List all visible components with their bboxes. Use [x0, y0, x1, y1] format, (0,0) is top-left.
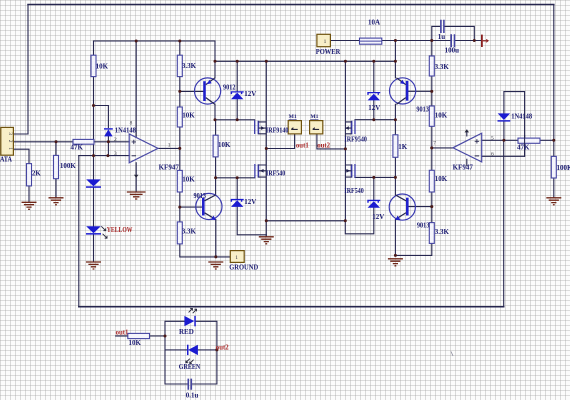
wire right source rail [344, 61, 346, 221]
fuse 10A F1 [360, 38, 382, 44]
resistor 10K R3 [177, 107, 182, 127]
diode 1N4148 D8 [498, 113, 510, 120]
svg-text:10K: 10K [182, 175, 195, 183]
ground under 100K R14 [546, 198, 561, 205]
ground under left drain rail [259, 237, 274, 244]
wire DATA pin2 to 47K [14, 141, 74, 143]
svg-text:POWER: POWER [316, 47, 341, 56]
wire cap 1u branch [432, 26, 475, 40]
svg-text:1: 1 [168, 142, 171, 148]
svg-text:DATA: DATA [0, 154, 12, 163]
resistor 10K R17 [128, 333, 150, 338]
svg-text:2: 2 [114, 137, 117, 143]
LED arrows D3 [101, 226, 107, 238]
wire zener D4 stubs [236, 61, 238, 120]
wire opamp1 output [158, 147, 180, 149]
wire Q1 base [180, 90, 204, 92]
wire x93.5 column [93, 41, 95, 262]
connector M1 b [310, 121, 323, 134]
wire left border [27, 5, 29, 135]
wire mid rail y61.3 [215, 60, 395, 62]
resistor 10K R11 [429, 106, 434, 126]
svg-text:100K: 100K [557, 164, 570, 172]
svg-text:100u: 100u [445, 47, 460, 55]
resistor 3.3K R5 [177, 222, 182, 244]
svg-text:KF947: KF947 [453, 163, 474, 171]
svg-text:3.3K: 3.3K [182, 62, 197, 70]
wire zener D5 stubs [237, 178, 266, 235]
svg-text:10A: 10A [368, 19, 380, 27]
svg-text:10K: 10K [129, 339, 142, 347]
diode D2 [86, 179, 101, 186]
svg-text:10K: 10K [218, 141, 231, 149]
svg-text:IRF540: IRF540 [266, 170, 286, 178]
svg-text:12V: 12V [244, 198, 256, 206]
resistor 3.3K R10 [429, 56, 434, 76]
wire upper rail2 [94, 40, 216, 42]
stray mark [451, 352, 453, 357]
svg-text:12V: 12V [372, 213, 384, 221]
wire x431.8 column [395, 41, 431, 256]
svg-text:1K: 1K [398, 143, 408, 151]
svg-text:out2: out2 [216, 345, 229, 352]
wire out1 from M1a [266, 134, 294, 149]
wire opamp2 pin5 [482, 139, 554, 141]
wire opamp minus input [79, 155, 129, 157]
resistor 100K R8 [54, 155, 59, 178]
ground op-amp U1 pin4 [127, 192, 146, 199]
zener 12V D7 [368, 94, 380, 101]
wire zener D7 stubs [373, 61, 375, 119]
svg-text:3: 3 [7, 132, 13, 135]
svg-text:out2: out2 [317, 143, 330, 150]
mosfet IRF540 M4 [345, 164, 355, 178]
resistor 1K R9 [393, 135, 398, 158]
wire gate upper left [215, 119, 255, 121]
wire diode D8 loop [504, 92, 525, 157]
wire 47K to opamp plus [94, 141, 129, 143]
wire fuse drop [394, 41, 396, 62]
svg-text:12V: 12V [368, 104, 380, 112]
svg-text:0.1u: 0.1u [186, 392, 199, 400]
wire POWER to fuse [330, 40, 359, 42]
svg-text:1u: 1u [438, 33, 446, 41]
wire Q3 base [409, 90, 432, 92]
power port red bar [482, 35, 488, 47]
ground under Q2 emitter [208, 262, 223, 269]
resistor 10K R6 [213, 135, 218, 157]
svg-text:out1: out1 [116, 330, 129, 337]
wire x179.8 column [180, 41, 216, 257]
svg-text:9013: 9013 [417, 222, 430, 230]
svg-text:3.3K: 3.3K [435, 63, 450, 71]
svg-text:10K: 10K [435, 175, 448, 183]
LED YELLOW D3 [86, 226, 101, 233]
wire right feedback rail [503, 140, 505, 306]
ground under 100K R8 [49, 198, 64, 205]
wire 2K to ground [28, 186, 30, 202]
svg-text:3.3K: 3.3K [435, 228, 450, 236]
wire out1 bottom stub [116, 335, 128, 337]
wire 100K R14 bottom [553, 178, 555, 198]
svg-text:10K: 10K [435, 111, 448, 119]
wire x215 column [215, 41, 230, 257]
svg-text:GREEN: GREEN [179, 363, 200, 371]
ground under 2K [22, 202, 37, 209]
svg-text:M1: M1 [289, 114, 297, 120]
connector M1 a [288, 121, 301, 134]
wire ground link left [266, 220, 345, 222]
svg-text:9012: 9012 [223, 84, 236, 92]
wire 100K R8 top [55, 142, 57, 156]
wire DATA pin1 to 2K [14, 149, 30, 163]
wire top rail [28, 4, 554, 6]
wire fuse to caps [382, 40, 481, 42]
LED RED D9 [184, 316, 194, 326]
svg-text:2K: 2K [32, 169, 42, 177]
wire right border [553, 5, 555, 157]
wire 100K R8 bottom [55, 179, 57, 198]
op-amp KF947 U2 [453, 130, 482, 167]
svg-text:GROUND: GROUND [229, 262, 258, 271]
mosfet IRF9540 M3 [345, 120, 355, 134]
wire out2 from M1b [317, 134, 346, 149]
svg-text:IRF9140: IRF9140 [266, 126, 289, 134]
svg-text:6: 6 [491, 151, 494, 157]
diode 1N4148 D1 [104, 129, 112, 136]
resistor 10K R4 [177, 170, 182, 192]
zener 12V D5 [231, 200, 243, 207]
wire left drain rail [265, 61, 267, 236]
zener 12V D6 [368, 201, 380, 208]
resistor 47K R15 [73, 139, 94, 144]
svg-text:12V: 12V [244, 90, 256, 98]
svg-text:KF947: KF947 [159, 164, 180, 172]
svg-text:2: 2 [7, 140, 13, 143]
connector POWER J2 [317, 34, 331, 46]
LED arrows D9 [189, 308, 197, 313]
transistor 9013 Q2 [196, 193, 222, 220]
svg-text:M1: M1 [310, 114, 318, 120]
svg-text:5: 5 [491, 136, 494, 142]
connector GROUND J3 [230, 251, 244, 263]
wire gate lower right [355, 176, 395, 178]
wire clamp jog [94, 106, 109, 128]
LED arrows D10 [186, 359, 194, 364]
transistor 9013 Q3 [390, 78, 416, 105]
resistor 10K R12 [429, 170, 434, 192]
svg-text:9013: 9013 [194, 192, 207, 200]
wire Q4 base [409, 206, 432, 208]
wire opamp1 pin8 drop [135, 41, 137, 137]
mosfet IRF540 M2 [255, 164, 266, 178]
connector DATA J1 [1, 127, 14, 155]
wire zener D6 stubs [345, 177, 374, 233]
resistor 3.3K R13 [429, 223, 434, 244]
svg-text:YELLOW: YELLOW [107, 227, 133, 234]
LED GREEN D10 [188, 345, 198, 355]
wire gate upper right [355, 119, 395, 121]
fuse mid line [360, 40, 382, 42]
wire opamp2 pin6 [482, 155, 525, 157]
svg-text:7: 7 [433, 140, 436, 146]
svg-text:47K: 47K [517, 144, 530, 152]
wire left feedback rail [78, 156, 80, 307]
op-amp KF947 U1 [129, 134, 158, 192]
svg-text:1N4148: 1N4148 [115, 127, 136, 135]
svg-text:9013: 9013 [416, 106, 429, 114]
svg-text:3: 3 [114, 151, 117, 157]
resistor 10K R1 [91, 55, 96, 76]
wire Q2 base [180, 206, 202, 208]
wire 10K R17 to led loop [150, 335, 166, 337]
wire pin6 loop over 47K [524, 135, 526, 156]
transistor 9012 Q1 [195, 78, 221, 105]
wire DATA pin3 [14, 133, 29, 135]
svg-text:out1: out1 [296, 142, 309, 149]
capacitor 100u C2 [451, 34, 454, 47]
ground under LED YELLOW [86, 262, 101, 269]
mosfet IRF9140 M1 [255, 120, 267, 134]
resistor 100K R14 [551, 156, 556, 178]
wire led loop [165, 321, 217, 384]
capacitor 0.1u C3 [188, 379, 191, 390]
svg-text:1: 1 [324, 39, 327, 45]
svg-text:47K: 47K [71, 144, 84, 152]
svg-text:1: 1 [7, 147, 13, 150]
zener 12V D4 [231, 93, 243, 100]
resistor 2K R7 [27, 164, 32, 186]
wire x395.4 column [394, 61, 396, 255]
svg-text:1N4148: 1N4148 [511, 113, 532, 121]
svg-text:IRF9540: IRF9540 [344, 135, 367, 143]
svg-text:100K: 100K [60, 162, 77, 170]
svg-text:10K: 10K [182, 112, 195, 120]
resistor 3.3K R2 [177, 55, 182, 76]
svg-text:IRF540: IRF540 [344, 187, 364, 195]
transistor 9013 Q4 [389, 194, 415, 220]
capacitor 1u C1 [441, 20, 444, 33]
wire gate lower left [216, 177, 255, 179]
svg-text:RED: RED [179, 328, 194, 336]
svg-text:10K: 10K [96, 62, 109, 70]
resistor 47K R16 [518, 138, 540, 143]
wire opamp2 output [432, 147, 453, 149]
wire diode D1 bottom [107, 136, 109, 155]
svg-text:1: 1 [235, 255, 238, 261]
ground under Q4 emitter [388, 259, 403, 266]
wire bottom feedback rail [79, 306, 504, 308]
svg-text:3.3K: 3.3K [182, 227, 197, 235]
svg-text:8: 8 [130, 120, 133, 126]
